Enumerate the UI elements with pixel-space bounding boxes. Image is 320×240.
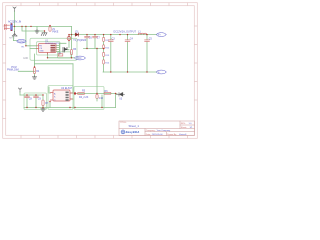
capacitor C5 (145, 37, 153, 41)
green highlight box B (snubber section) (58, 52, 72, 58)
wire gnd stub1 (14, 26, 16, 31)
svg-text:PWM_DIM: PWM_DIM (7, 69, 19, 72)
wire opto right stubs (71, 93, 74, 99)
junction (36,107.5) (35, 107, 36, 108)
svg-text:C10: C10 (99, 98, 104, 100)
svg-text:GND: GND (23, 58, 28, 60)
wire source rail (48, 53, 75, 58)
junction big dot FB (74, 92, 76, 94)
junction (71.5,34.6) (71, 34, 72, 35)
svg-text:NET1: NET1 (9, 37, 15, 39)
wire output rail (69, 34, 157, 36)
wire bottom gnd rail (24, 107, 116, 109)
svg-text:TITLE:: TITLE: (120, 122, 127, 124)
junction (95,34.6) (94, 34, 95, 35)
svg-text:Drawn By:: Drawn By: (167, 133, 177, 136)
junction (87,48.5) (86, 48, 87, 49)
svg-text:EasyEDA: EasyEDA (126, 130, 141, 134)
flag VOUT- oval (157, 70, 167, 74)
junction (102,107.5) (101, 107, 102, 108)
junction (147,34.6) (146, 34, 147, 35)
wire rail down to diode (71, 26, 73, 34)
wire feedback drop (96, 49, 98, 94)
resistor R4 (33, 68, 39, 74)
junction (43,95) (42, 94, 43, 95)
wire IC right bus (56, 44, 60, 53)
wire bottom R lead (42, 95, 44, 108)
antenna flag top (13, 7, 16, 11)
green highlight box A (primary controller section) (30, 38, 77, 60)
wire feedback mid rail (75, 92, 117, 94)
EasyEDA logo (121, 130, 140, 134)
junction (115.5,93.5) (115, 93, 116, 94)
green highlight box C (output filter caps section) (24, 93, 47, 110)
MOSFET Q1 (63, 48, 67, 53)
wire bottom cap2 leads (35, 95, 37, 108)
wire tl431 cap branch (101, 95, 103, 108)
wire resistor chain leads (103, 35, 105, 72)
wire cap C4 vertical (127, 35, 129, 72)
wire elbow snubber (22, 26, 45, 32)
junction (103.6,34.6) (103, 34, 104, 35)
wire opto left drop (49, 87, 51, 93)
wire output gnd rail (103, 71, 157, 73)
junction (87,34.6) (86, 34, 87, 35)
wire transformer stubs (60, 35, 70, 50)
svg-text:V+: V+ (158, 33, 162, 37)
green highlight box D (optocoupler section) (48, 86, 73, 110)
flag PGND oval (17, 39, 26, 43)
wire bottom cap1 leads (26, 95, 28, 108)
resistor chain R14 (103, 60, 110, 65)
TVS diode DZ1 (49, 27, 59, 34)
resistor R5 (78, 90, 89, 99)
junction (27,95) (26, 94, 27, 95)
junction (110.8,34.6) (110, 34, 111, 35)
connector P1 (4, 24, 9, 29)
junction (47.5,57.8) (47, 57, 48, 58)
wire cap C5 vertical (146, 35, 148, 72)
junction (50,101.5) (49, 101, 50, 102)
TL431 U3 (116, 93, 124, 101)
capacitor C3 (108, 37, 115, 41)
green highlight box A2 (inner IC box) (37, 42, 61, 55)
wire to IC pin FB (26, 26, 37, 45)
diode D1 (75, 30, 79, 36)
capacitor C7 (93, 36, 101, 39)
junction (31,26.4) (30, 26, 31, 27)
svg-text:Sheet:: Sheet: (181, 126, 187, 129)
resistor R2 (58, 52, 63, 56)
chassis ground (41, 33, 47, 36)
svg-text:VCC: VCC (76, 56, 82, 60)
ground G4 (41, 108, 45, 112)
junction (14.5,26.4) (14, 26, 15, 27)
wire cap C out 2 leads (94, 35, 96, 49)
ground G2 (35, 30, 39, 34)
svg-text:2023-05-04: 2023-05-04 (152, 134, 163, 136)
optocoupler U2 (51, 90, 73, 102)
svg-text:Company:: Company: (146, 130, 156, 132)
junction (27,107.5) (26, 107, 27, 108)
junction (120,34.6) (119, 34, 120, 35)
junction (50,25.6) (49, 25, 50, 26)
antenna flag bottom (18, 88, 21, 92)
wire AC top rail (13, 25, 72, 27)
wire antenna drop (14, 11, 16, 26)
junction (22,26.4) (21, 26, 22, 27)
capacitor C10 vertical (96, 94, 98, 101)
wire pwm resistor gnd (34, 74, 36, 76)
junction (70,107.5) (69, 107, 70, 108)
junction (34.5,67) (34, 66, 35, 67)
resistor chain R12 (103, 45, 110, 50)
svg-text:Your Company: Your Company (157, 129, 172, 132)
fuse F1 (11, 24, 13, 31)
capacitor C8 (25, 96, 33, 100)
junction (25.9,45.8) (25, 45, 26, 46)
wire cap C3 vertical (110, 35, 112, 72)
svg-text:U2 EL817: U2 EL817 (61, 87, 73, 90)
svg-text:P6KE: P6KE (52, 30, 59, 33)
wire resistor lead (71, 35, 73, 58)
wire tl431 cathode drop (115, 94, 117, 108)
resistor chain R13 (103, 52, 110, 57)
svg-text:REV:: REV: (181, 123, 186, 125)
ground G1 (12, 32, 17, 37)
svg-text:DC12V/2A_OUTPUT: DC12V/2A_OUTPUT (114, 30, 137, 33)
svg-text:Variant1: Variant1 (179, 133, 187, 136)
junction (97,93.4) (96, 93, 97, 94)
wire opto pin4 gnd (49, 102, 51, 108)
svg-text:T1_PQ2620: T1_PQ2620 (73, 39, 87, 42)
transformer T1 (67, 36, 87, 43)
junction (44.5,31) (44, 30, 45, 31)
wire bottom cap rail (20, 94, 43, 96)
resistor R6 (104, 90, 111, 95)
svg-text:SD6834.SOP8: SD6834.SOP8 (45, 43, 60, 45)
sheet frame (3, 3, 198, 139)
inductor L1 (138, 30, 147, 34)
junction (103.6,48.5) (103, 48, 104, 49)
junction (127.5,34.6) (127, 34, 128, 35)
resistor R3 (70, 48, 77, 55)
wire cap C out 1 leads (86, 35, 88, 49)
resistor chain R11 (103, 37, 110, 42)
capacitor C9 (34, 96, 42, 100)
svg-text:GND: GND (39, 51, 44, 53)
junction (97,48.5) (96, 48, 97, 49)
svg-text:V-: V- (158, 70, 161, 74)
title block (119, 121, 195, 136)
ground G3 (32, 76, 36, 79)
svg-text:Date:: Date: (146, 133, 151, 136)
junction (69,34.6) (68, 34, 69, 35)
junction (75,107.5) (74, 107, 75, 108)
junction (110.8,72) (110, 71, 111, 72)
wire flag lead (13, 37, 17, 41)
junction (36,95) (35, 94, 36, 95)
wire sense bus (84, 48, 104, 50)
capacitor C4 (125, 37, 133, 41)
junction (71.5,57.8) (71, 57, 72, 58)
wire pwm net (18, 64, 34, 72)
flag VOUT+ oval (157, 33, 167, 37)
capacitor C6 (85, 36, 93, 39)
junction (127.5,72) (127, 71, 128, 72)
wire gnd stub2 (36, 26, 38, 29)
green highlight box E (feedback divider section) (74, 87, 104, 110)
wire bottom antenna drop (19, 92, 21, 95)
junction (25.9,26.4) (25, 26, 26, 27)
IC U1 (37, 44, 57, 55)
svg-text:Sheet_1: Sheet_1 (129, 124, 140, 128)
wire IC left stubs (30, 48, 37, 50)
svg-text:R4_2.2K: R4_2.2K (79, 96, 89, 99)
wire gnd bus under IC (35, 54, 74, 64)
resistor R7 (42, 100, 49, 106)
svg-text:AC220V_IN: AC220V_IN (8, 21, 21, 24)
flag VCC oval (75, 56, 86, 60)
junction (147,72) (146, 71, 147, 72)
junction (43,107.5) (42, 107, 43, 108)
wire opto link vertical (72, 64, 74, 93)
svg-text:PGND: PGND (18, 40, 25, 43)
